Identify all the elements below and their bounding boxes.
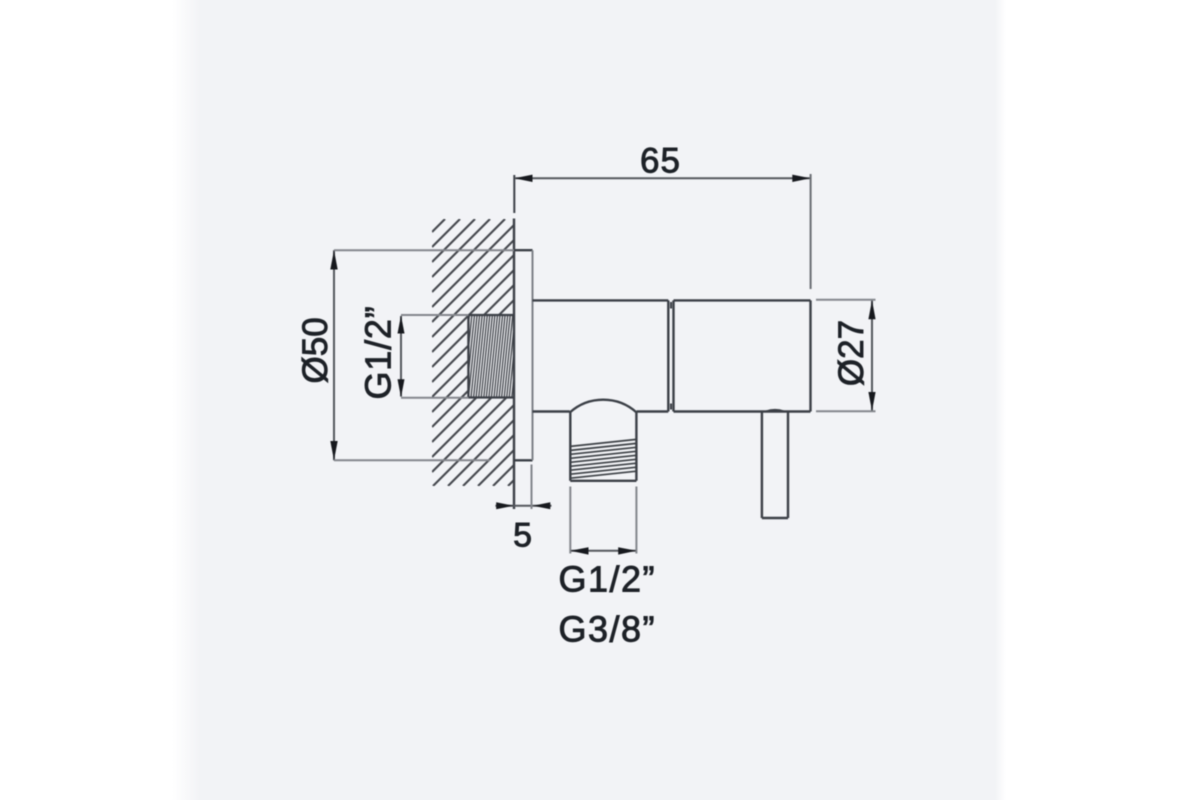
wall hatching (432, 219, 514, 486)
svg-text:G1/2”: G1/2” (358, 305, 399, 399)
dimension D50 arrows (330, 250, 337, 460)
dimension G1/2 inlet lines (401, 315, 468, 398)
dimension 65 arrows (514, 175, 810, 182)
valve body section 1 (533, 300, 669, 411)
valve body section 2 (674, 300, 811, 411)
dimension 65 lines (514, 174, 810, 289)
outlet tube (570, 413, 636, 481)
svg-text:Ø27: Ø27 (832, 320, 871, 386)
dimension 5 lines (495, 465, 551, 510)
outlet dome top (570, 400, 637, 413)
svg-text:5: 5 (513, 516, 532, 554)
flange plate (514, 250, 533, 460)
dimension D50 lines (334, 250, 514, 460)
outlet thread dimension arrows (570, 547, 636, 554)
G1/2 inlet thread block outline (468, 315, 513, 398)
G1/2 inlet thread texture (468, 315, 513, 398)
svg-text:G3/8”: G3/8” (559, 609, 657, 650)
wall face line (513, 219, 515, 510)
dimension 5 arrows (496, 502, 550, 509)
dimension D27 arrows (868, 300, 875, 411)
dimension G1/2 inlet arrows (398, 316, 405, 398)
outlet thread dimension lines (570, 487, 636, 554)
dimension D27 lines (816, 300, 876, 412)
outlet thread lines (570, 439, 636, 478)
handle stem (762, 410, 788, 518)
neck groove between body sections (670, 302, 672, 410)
svg-text:G1/2”: G1/2” (559, 559, 657, 600)
svg-text:65: 65 (640, 142, 681, 181)
svg-text:Ø50: Ø50 (296, 317, 335, 383)
